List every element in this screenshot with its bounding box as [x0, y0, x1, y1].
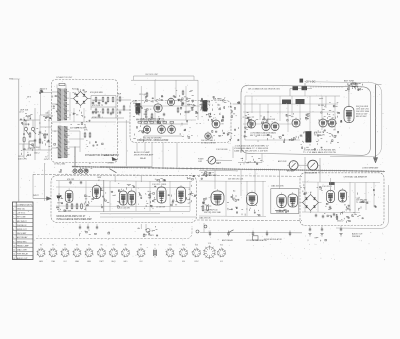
- antenna tuning network: [348, 87, 349, 89]
- output box bottom marks: [275, 210, 285, 212]
- svg-text:12A6 10K 470K: 12A6 10K 470K: [271, 184, 284, 187]
- tube V12 first audio: [65, 190, 73, 202]
- B3 left strip parts: [243, 136, 245, 138]
- V18 parts: [231, 196, 232, 197]
- capacitor C6: [163, 113, 165, 115]
- svg-text:R4 10K: R4 10K: [72, 88, 79, 90]
- calibrator caps: [329, 206, 331, 208]
- wire receiver vertical: [103, 180, 105, 212]
- svg-text:PHONES: PHONES: [352, 236, 361, 238]
- tube V2 oscillator: [167, 98, 174, 105]
- svg-text:AUDIO OUT: AUDIO OUT: [104, 154, 115, 157]
- svg-text:ANT TUNE: ANT TUNE: [344, 80, 355, 83]
- svg-text:1.5K CR1 .1 MFD: 1.5K CR1 .1 MFD: [152, 184, 167, 186]
- capacitor C1: [39, 131, 41, 133]
- svg-text:RCVR MODULATOR: RCVR MODULATOR: [264, 238, 282, 241]
- resistor R1A: [44, 134, 46, 138]
- svg-text:3300: 3300: [133, 103, 137, 105]
- V17 grid parts: [206, 198, 208, 200]
- svg-text:6AL5: 6AL5: [124, 260, 128, 263]
- resistor R7: [102, 109, 104, 113]
- wire B3 bottom drops: [232, 147, 234, 159]
- RF choke L2: [293, 86, 299, 90]
- transformer T1: [57, 89, 69, 121]
- left column extra parts: [21, 149, 23, 151]
- svg-text:T1 .005 50V: T1 .005 50V: [356, 202, 367, 204]
- wire antenna input: [33, 198, 47, 200]
- band between PS and receiver: [82, 167, 84, 169]
- resistor R10: [119, 97, 121, 101]
- tube V4 modulator: [158, 126, 166, 134]
- svg-text:V8: V8: [124, 244, 126, 246]
- tube V10 multiplier: [292, 119, 300, 127]
- wire box2 upper verticals: [154, 80, 156, 101]
- tube V8 buffer: [248, 120, 256, 128]
- capacitor C4: [92, 111, 94, 113]
- capacitor C5: [98, 114, 100, 116]
- relay K1: [29, 141, 35, 148]
- svg-text:MIC INPUT: MIC INPUT: [17, 221, 28, 223]
- B1 left strip: [54, 130, 56, 132]
- wire sidetone to receiver: [110, 169, 117, 173]
- wire bridge output: [88, 98, 92, 100]
- modulator bias parts: [143, 132, 144, 133]
- svg-text:12AT7: 12AT7: [99, 260, 104, 263]
- wire left input harness: [19, 119, 40, 121]
- PA coupling parts: [328, 123, 329, 125]
- transformer T2: [58, 126, 70, 158]
- meter M3 modulation: [306, 160, 320, 170]
- wire drops into calibrator: [304, 157, 306, 182]
- wire B2 to bus drops: [162, 143, 164, 167]
- tube V9 driver A: [262, 123, 270, 131]
- svg-text:PHONE JK: PHONE JK: [17, 225, 27, 227]
- relay left connector: [204, 225, 207, 228]
- svg-text:12A6: 12A6: [133, 99, 137, 102]
- tube V10B driver pair: [319, 119, 327, 127]
- svg-text:MODULATION: MODULATION: [305, 172, 318, 175]
- tube V5 modulator: [168, 126, 176, 134]
- wire B6 rails: [302, 181, 380, 184]
- tube socket V11: [165, 248, 174, 257]
- wire feed line above box2: [131, 79, 198, 81]
- svg-text:3300 C7: 3300 C7: [337, 220, 343, 222]
- receiver resistor bank: [66, 204, 68, 209]
- svg-text:C7 R4 L2 680: C7 R4 L2 680: [54, 164, 65, 166]
- wire B6 verticals: [304, 182, 306, 212]
- svg-text:MODULATOR AMPL NO 27: MODULATOR AMPL NO 27: [57, 215, 87, 218]
- svg-text:9: 9: [13, 241, 14, 243]
- audio transformer T3: [136, 104, 141, 114]
- svg-text:V5: V5: [88, 244, 90, 246]
- svg-text:6BE6: 6BE6: [87, 261, 91, 263]
- svg-text:6C4: 6C4: [63, 261, 66, 263]
- svg-text:ANT AMP: ANT AMP: [287, 170, 296, 173]
- wire left verticals: [23, 117, 25, 158]
- svg-text:10K .01 6AK6 10K 100 2W 470K C: 10K .01 6AK6 10K 100 2W 470K CR1: [248, 87, 280, 90]
- svg-text:V9: V9: [140, 244, 142, 246]
- power switch S1: [24, 127, 27, 130]
- tube socket V6: [97, 248, 106, 257]
- svg-text:Y1: Y1: [154, 244, 156, 246]
- oscillator components: [151, 101, 153, 103]
- relay row component: [253, 236, 259, 240]
- wire B2 lower rail: [136, 119, 196, 121]
- svg-text:2: 2: [13, 213, 14, 215]
- svg-text:5Y3: 5Y3: [168, 261, 171, 263]
- receiver cap row below boundary: [163, 179, 165, 181]
- wire B4 rails: [56, 186, 190, 189]
- svg-text:100 L2: 100 L2: [34, 152, 40, 154]
- filter capacitor C3: [98, 101, 100, 103]
- svg-text:AUDIO OUT: AUDIO OUT: [352, 233, 363, 236]
- tube socket V5: [84, 248, 93, 257]
- tube V19 audio output B: [288, 194, 298, 207]
- tube V15 detector: [157, 187, 166, 203]
- svg-text:7: 7: [13, 233, 14, 235]
- receiver mid resistor bank: [207, 206, 209, 211]
- wire mid rails: [199, 180, 266, 183]
- wire shielded audio bus right: [200, 168, 385, 172]
- power amplifier tube V11: [344, 107, 354, 123]
- tube V16 AF amp: [177, 187, 186, 203]
- lower-right left-column parts: [41, 142, 43, 144]
- calibrator parts: [330, 208, 332, 210]
- svg-text:V14: V14: [208, 243, 211, 245]
- svg-text:RELAY: RELAY: [140, 157, 147, 160]
- wire transmitter lower rail: [245, 139, 300, 141]
- svg-text:6SN7: 6SN7: [194, 261, 198, 263]
- modulator-amplifier enclosure box: [51, 176, 197, 223]
- tube V3 modulator: [143, 126, 150, 133]
- svg-text:TO REC: TO REC: [107, 163, 114, 165]
- tube V13 output: [93, 186, 101, 199]
- tube V7 carrier amp: [205, 133, 211, 139]
- tube socket V12: [179, 248, 188, 257]
- wire table feed: [18, 199, 20, 202]
- choke row lower: [282, 100, 291, 105]
- wire shielded audio bus left: [72, 166, 200, 170]
- tube socket V1: [36, 248, 45, 257]
- wire B2 bottom drops: [136, 143, 138, 152]
- dynamotor power supply enclosure box: [52, 80, 118, 163]
- svg-text:INPUT: INPUT: [33, 195, 40, 197]
- driver stage parts: [264, 119, 266, 121]
- svg-text:GND 1 A: GND 1 A: [17, 207, 25, 210]
- wire 28V distribution: [290, 87, 293, 89]
- resistor R15: [185, 111, 189, 113]
- tube socket V14: [203, 245, 216, 259]
- svg-text:50V 33K CR1 1.5K: 50V 33K CR1 1.5K: [228, 178, 244, 180]
- B2 bottom-left parts: [142, 131, 144, 132]
- svg-text:UUF .005 .1: UUF .005 .1: [92, 111, 101, 113]
- wire 115V feed vertical bus: [18, 79, 20, 201]
- svg-text:8: 8: [13, 237, 14, 239]
- tube socket V4: [72, 248, 81, 257]
- tube V14b IF amp: [128, 191, 136, 205]
- junction dots: [23, 133, 25, 135]
- V14 top parts: [126, 187, 128, 189]
- svg-text:V15: V15: [220, 244, 223, 246]
- receiver chassis bottom boundary line: [197, 219, 302, 222]
- receiver outer boundary bottom: [36, 226, 192, 239]
- wire transmitter top dashed feed: [310, 86, 344, 88]
- receiver top rail: [56, 181, 192, 182]
- calibrator bottom cluster: [347, 216, 349, 218]
- sidetone transformer T5: [306, 132, 312, 143]
- relay row contacts: [209, 231, 211, 237]
- svg-text:V2: V2: [52, 244, 54, 246]
- tube V21 calibrator osc: [327, 191, 335, 203]
- wire meter link: [298, 164, 308, 166]
- svg-text:10K R4 12A6 .1: 10K R4 12A6 .1: [201, 139, 216, 142]
- wire osc box to balanced mod: [233, 103, 242, 105]
- resistor R9: [112, 109, 114, 113]
- svg-text:CR1 .005: CR1 .005: [139, 94, 147, 96]
- B4 gap parts: [154, 197, 156, 199]
- resistor R5: [112, 98, 114, 102]
- bal mod right parts: [229, 106, 231, 108]
- resistor R13: [151, 114, 153, 118]
- svg-text:12: 12: [13, 254, 15, 256]
- svg-text:12A6 CR1 33K 2W 47K .1 2W 50V: 12A6 CR1 33K 2W 47K .1 2W 50V: [234, 150, 268, 153]
- svg-text:+28 V DC: +28 V DC: [305, 80, 316, 83]
- transmitter outer boundary right: [310, 82, 382, 157]
- svg-text:V7: V7: [112, 244, 114, 246]
- resistor R1: [39, 139, 41, 143]
- receiver input network: [60, 195, 61, 196]
- svg-text:V13: V13: [195, 244, 198, 246]
- secondary wiring T2 right: [69, 130, 80, 132]
- svg-text:V4: V4: [76, 244, 78, 246]
- svg-text:13: 13: [13, 258, 15, 260]
- resistor R6: [95, 109, 97, 113]
- wire TB1 to bus: [12, 78, 19, 80]
- power supply misc parts: [82, 115, 84, 116]
- oscillator-modulator enclosure box: [130, 101, 231, 143]
- arrow mark left of B2: [112, 157, 117, 160]
- antenna arrowhead: [373, 158, 377, 164]
- feed parts: [41, 91, 43, 92]
- sidetone circuit parts: [314, 149, 315, 151]
- wire B4 verticals: [58, 181, 60, 211]
- svg-text:CUR: CUR: [198, 161, 203, 163]
- terminal strip TB2 table: [13, 202, 34, 260]
- wire B3 lower mid rail: [243, 123, 300, 125]
- svg-text:5: 5: [13, 225, 14, 227]
- meter M1 plate current: [206, 157, 218, 165]
- svg-text:4: 4: [13, 221, 14, 223]
- crystal calibrator enclosure box: [300, 173, 384, 226]
- svg-text:100 R4 3300: 100 R4 3300: [92, 100, 102, 102]
- capacitors below receiver box: [79, 226, 81, 228]
- switch S2: [31, 127, 34, 130]
- wire receiver bottom rails: [100, 213, 160, 215]
- svg-text:AUDIO OUT: AUDIO OUT: [17, 257, 28, 260]
- wire relay row drop left: [203, 223, 205, 233]
- keying relay parts: [254, 161, 255, 164]
- T2 load resistors: [84, 133, 86, 137]
- tube V1 speech amplifier: [154, 104, 162, 112]
- svg-text:.01 3300 47K: .01 3300 47K: [314, 134, 325, 136]
- svg-text:100 100 CR1 MFD: 100 100 CR1 MFD: [202, 175, 218, 177]
- wire power out right: [116, 99, 131, 101]
- svg-text:400 CPS: 400 CPS: [18, 159, 27, 161]
- wire modulator plate rail: [140, 123, 188, 125]
- svg-text:V1: V1: [40, 244, 42, 246]
- svg-text:ANT RELAY: ANT RELAY: [17, 236, 28, 239]
- svg-text:6BA6: 6BA6: [75, 260, 79, 263]
- svg-text:DIAL LIGHT: DIAL LIGHT: [17, 249, 28, 252]
- svg-text:PWR RELAY: PWR RELAY: [17, 253, 29, 256]
- svg-text:680 T1 UUF .1 .005 MFD: 680 T1 UUF .1 .005 MFD: [250, 135, 271, 137]
- key jack J2: [146, 229, 150, 233]
- tube V18 first audio: [247, 193, 258, 206]
- rectifier bridge CR2: [300, 192, 322, 213]
- output box parts: [287, 210, 290, 212]
- power input plug P1: [22, 122, 23, 123]
- balanced modulator parts: [211, 105, 213, 106]
- svg-text:680 V3 680 1.5K V3: 680 V3 680 1.5K V3: [136, 119, 152, 121]
- svg-text:BAL MOD: BAL MOD: [213, 98, 222, 101]
- wire 115V feed upper: [40, 90, 42, 115]
- svg-text:6AQ5: 6AQ5: [111, 260, 115, 263]
- tube V17 second IF: [211, 191, 224, 205]
- capacitor C7: [182, 102, 184, 104]
- svg-text:28 V: 28 V: [27, 97, 32, 99]
- svg-text:V3: V3: [64, 244, 66, 246]
- receiver inter-tube parts: [118, 206, 120, 208]
- tube socket V3: [60, 248, 69, 257]
- svg-text:V11: V11: [168, 244, 171, 246]
- svg-text:12A6: 12A6: [51, 260, 55, 263]
- receiver mid parts: [88, 196, 90, 198]
- svg-text:CRYSTAL CALIBRATOR: CRYSTAL CALIBRATOR: [344, 176, 368, 179]
- wire gap vertical: [125, 120, 127, 166]
- svg-text:6X4: 6X4: [139, 261, 142, 263]
- svg-text:PANEL LAMP: PANEL LAMP: [17, 244, 29, 247]
- transmitter parts band: [256, 135, 257, 137]
- wire antenna lead: [375, 85, 377, 159]
- RF choke L3: [302, 86, 308, 90]
- svg-text:+28 V DC: +28 V DC: [17, 213, 26, 215]
- svg-text:ANT RELAY: ANT RELAY: [222, 239, 234, 242]
- svg-text:L2 10K 5W: L2 10K 5W: [156, 206, 165, 208]
- svg-text:1: 1: [13, 208, 14, 210]
- relay row switch: [229, 230, 234, 233]
- svg-text:680 V3 50V: 680 V3 50V: [356, 116, 367, 118]
- receiver coupling parts: [139, 194, 142, 196]
- tube V14a IF amp: [120, 191, 128, 205]
- wire antenna feed vertical: [348, 85, 350, 107]
- wire M1 to panel: [215, 159, 232, 161]
- svg-text:AUDIO 1ST AMP: AUDIO 1ST AMP: [134, 151, 151, 154]
- svg-text:RECV ANT: RECV ANT: [17, 232, 27, 235]
- wire PS verticals: [69, 92, 71, 120]
- wire upper line above B2: [134, 75, 195, 77]
- wire transmitter second rail: [243, 103, 338, 105]
- bus takeoff parts: [210, 172, 211, 174]
- wire transmitter stage drops: [251, 96, 253, 113]
- tube socket V13: [192, 248, 201, 257]
- crystal box outer corner: [336, 185, 389, 229]
- resistor R14: [177, 108, 179, 112]
- input filter above T1: [59, 83, 65, 85]
- svg-text:L2 C7: L2 C7: [19, 111, 24, 113]
- audio output stage box: [271, 189, 299, 214]
- receiver bottom rail: [60, 211, 190, 213]
- fuse F1: [23, 137, 25, 142]
- balanced modulator transformer T4: [203, 101, 208, 112]
- calibrator dark connector: [329, 182, 335, 185]
- PA grid parts: [340, 120, 343, 121]
- svg-text:OSC MOD UNIT: OSC MOD UNIT: [145, 74, 159, 76]
- wire meter row second line: [199, 169, 238, 172]
- tube socket V15: [217, 248, 226, 257]
- resistor R3: [102, 98, 104, 102]
- B2 left parts: [143, 114, 145, 116]
- svg-text:47K UUF MFD: 47K UUF MFD: [90, 92, 104, 94]
- wire receiver left bus: [43, 163, 45, 201]
- buffer stage parts: [254, 120, 256, 122]
- label +28 V DC: [300, 79, 304, 83]
- transmitter enclosure box: [241, 85, 371, 155]
- resistor R4: [107, 98, 109, 102]
- tube socket V9: [136, 248, 145, 257]
- wire transmitter B+ rail: [245, 95, 340, 97]
- svg-text:6AK6: 6AK6: [39, 260, 43, 263]
- svg-text:DYNAMOTOR UNIT: DYNAMOTOR UNIT: [56, 76, 73, 79]
- svg-text:LONG WIRE ANT: LONG WIRE ANT: [362, 167, 379, 170]
- wire calibrate row: [238, 162, 262, 164]
- meter M2 antenna current: [287, 161, 300, 170]
- svg-text:11: 11: [13, 250, 15, 252]
- meter row dash segment: [201, 171, 215, 173]
- wire filter rails: [91, 95, 116, 97]
- svg-text:33K CR1 470K 12A6: 33K CR1 470K 12A6: [204, 211, 221, 214]
- tube V9 driver B: [271, 123, 279, 131]
- tube V19 audio output A: [277, 195, 287, 208]
- filter capacitor C2: [92, 101, 94, 103]
- box2 top small parts: [146, 93, 148, 96]
- resistor R11: [123, 106, 125, 110]
- wire B2 verticals: [140, 86, 142, 124]
- calibrator right-half parts: [373, 189, 374, 190]
- svg-text:INTELLIGENCE AMPLIFIER AMP: INTELLIGENCE AMPLIFIER AMP: [57, 218, 93, 221]
- wire PS internal rail: [52, 121, 116, 123]
- svg-text:ANT CUR: ANT CUR: [278, 160, 287, 163]
- boundary cluster right: [188, 177, 190, 179]
- svg-text:6V6: 6V6: [182, 261, 185, 263]
- B1 above-bridge parts: [84, 91, 86, 93]
- svg-text:6AK6 3300 UUF: 6AK6 3300 UUF: [262, 118, 276, 121]
- svg-text:6J5: 6J5: [220, 261, 223, 263]
- svg-text:115 V: 115 V: [42, 89, 48, 91]
- B2 corner parts: [135, 113, 137, 115]
- wire vertical drops to receiver: [114, 176, 116, 182]
- wire B3 mid rail: [243, 111, 335, 113]
- svg-text:.01 .005 5W: .01 .005 5W: [120, 207, 130, 209]
- B2 mid resistor band: [138, 122, 142, 124]
- svg-text:T1 .1 V3 6AK6 6AK6 47K 220 2W: T1 .1 V3 6AK6 6AK6 47K 220 2W: [303, 151, 337, 154]
- wire T2 primary feed: [52, 130, 59, 132]
- tube V22 calibrator amp: [339, 190, 347, 202]
- svg-text:C7 CR1 47K R4: C7 CR1 47K R4: [201, 142, 216, 144]
- wire antenna relay row: [200, 232, 302, 234]
- svg-text:6: 6: [13, 229, 14, 231]
- tube V6 balanced modulator: [212, 120, 220, 128]
- resistor R12: [145, 111, 147, 115]
